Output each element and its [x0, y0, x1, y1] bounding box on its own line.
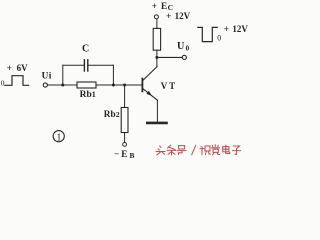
- wire: capacitor left lead: [63, 64, 84, 66]
- watermark char 3 (hao): [178, 146, 187, 155]
- svg-text:+: +: [7, 64, 12, 74]
- watermark: red CJK text "tou tiao hao / shi jue dian zi" drawn as strokes: [156, 145, 241, 155]
- svg-text:EC: EC: [161, 1, 174, 12]
- watermark char 5 (jue): [212, 145, 220, 155]
- circled figure number 1: [53, 131, 64, 142]
- emitter arrowhead: [146, 91, 152, 96]
- svg-text:VT: VT: [161, 81, 177, 91]
- node Ui input terminal: [43, 83, 47, 87]
- svg-text:1: 1: [56, 132, 61, 143]
- node -EB terminal: [123, 143, 127, 147]
- svg-text:+: +: [166, 12, 171, 22]
- svg-text:U0: U0: [177, 41, 190, 53]
- svg-text:0: 0: [217, 33, 221, 42]
- ground: [147, 122, 166, 125]
- wire: collector node to Uo terminal: [157, 56, 182, 58]
- wire: Rb2 to -EB terminal: [124, 133, 126, 143]
- svg-text:0: 0: [1, 79, 5, 88]
- wire: collector vertical: [156, 50, 158, 67]
- svg-text:+: +: [152, 2, 157, 12]
- junction dot: collector node: [155, 56, 158, 59]
- watermark char 1 (tou): [156, 146, 165, 155]
- watermark slash: [192, 145, 196, 155]
- transistor VT collector lead: [143, 67, 157, 81]
- input pulse waveform: [5, 76, 29, 86]
- transistor VT base bar: [141, 79, 143, 92]
- svg-text:Rb1: Rb1: [80, 90, 96, 100]
- node Uo terminal: [182, 55, 186, 59]
- watermark char 2 (tiao): [167, 145, 176, 155]
- watermark char 7 (zi): [232, 146, 240, 154]
- transistor VT emitter lead: [143, 89, 158, 101]
- resistor Rb2: [121, 108, 128, 133]
- junction dot: loop right on main wire: [112, 84, 115, 87]
- resistor Rb1: [77, 82, 96, 88]
- wire: main wire down to Rb2: [124, 85, 126, 108]
- wire: resistor to +EC terminal: [156, 19, 158, 28]
- watermark char 6 (dian): [223, 145, 230, 154]
- svg-text:Rb2: Rb2: [104, 110, 120, 120]
- svg-text:6V: 6V: [17, 63, 29, 73]
- svg-text:−EB: −EB: [114, 150, 136, 160]
- svg-text:C: C: [82, 43, 89, 54]
- svg-text:12V: 12V: [175, 11, 191, 21]
- svg-text:+: +: [224, 25, 229, 35]
- wire: capacitor right lead: [88, 64, 114, 66]
- junction dot: Rb2 branch on main wire: [123, 84, 126, 87]
- node +EC supply terminal: [154, 15, 158, 19]
- junction dot: loop left on main wire: [61, 84, 64, 87]
- resistor Rc (collector load): [153, 28, 160, 50]
- watermark char 4 (shi): [200, 146, 211, 155]
- wire: Rb1 to base: [96, 84, 142, 86]
- svg-text:Ui: Ui: [42, 72, 52, 82]
- wire: loop right vertical: [112, 65, 114, 85]
- capacitor C: [84, 60, 87, 71]
- wire: input terminal to Rb1: [48, 84, 78, 86]
- wire: emitter vertical to ground: [156, 100, 158, 122]
- svg-text:12V: 12V: [232, 24, 248, 34]
- output pulse waveform: [198, 27, 217, 41]
- wire: loop left vertical: [62, 65, 64, 85]
